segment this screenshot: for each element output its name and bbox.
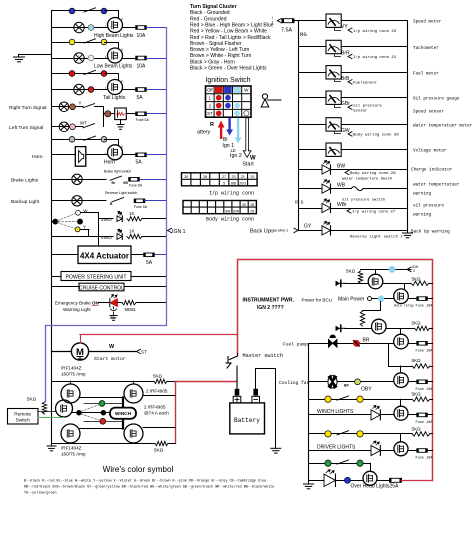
Low Beam Lights MOSFET bbox=[105, 48, 123, 64]
ignition ST W contact bbox=[244, 111, 249, 116]
red wire to power box bbox=[80, 334, 238, 336]
fuse 7.5A bbox=[282, 19, 294, 23]
M3 to M4 drop bbox=[400, 329, 402, 335]
M3 out wire bbox=[386, 328, 414, 330]
PSU right wire bbox=[131, 276, 167, 278]
C bottom stub bbox=[70, 442, 72, 445]
Y join wire bbox=[52, 230, 89, 237]
emergency wire mid bbox=[118, 302, 123, 304]
svg-text:Ign 2: Ign 2 bbox=[230, 153, 242, 159]
winch lights switch bbox=[337, 396, 349, 400]
fuse 5A actuator bbox=[144, 253, 155, 257]
left turn wire bbox=[52, 126, 84, 128]
driver lights switch wire bbox=[309, 433, 413, 435]
svg-text:28: 28 bbox=[250, 209, 254, 213]
fuse 5A turn bbox=[136, 112, 147, 116]
turn join wire bbox=[95, 107, 104, 127]
svg-text:2 IRF4905: 2 IRF4905 bbox=[146, 389, 168, 394]
green dot wire bbox=[84, 403, 123, 405]
meter 1 tab bbox=[335, 28, 341, 31]
svg-text:INSTRUMMENT PWR.: INSTRUMMENT PWR. bbox=[243, 298, 295, 304]
resistor 580 bbox=[122, 301, 136, 305]
M7 top stub bbox=[400, 434, 402, 442]
svg-text:I/p wiring conn 23: I/p wiring conn 23 bbox=[353, 29, 397, 34]
svg-text:Right Turn Signal: Right Turn Signal bbox=[9, 105, 47, 111]
ST arrowhead bbox=[137, 349, 141, 353]
IGN2 dot (light blue) bbox=[389, 266, 396, 273]
start motor left wire bbox=[52, 351, 72, 353]
E bottom stub bbox=[133, 442, 135, 445]
ignition dot r2c1 bbox=[216, 103, 222, 109]
CC left wire bbox=[52, 286, 80, 288]
battery ground bbox=[271, 448, 281, 453]
horn drain wire bbox=[105, 140, 119, 145]
Body wiring conn table bbox=[183, 201, 256, 214]
Low Beam Lights switch wire bbox=[52, 42, 105, 44]
svg-text:Main Power: Main Power bbox=[338, 297, 365, 303]
chassis ground stem bbox=[18, 55, 20, 58]
MOSFET IRF1404Z C bbox=[61, 424, 80, 443]
M8 out wire bbox=[377, 480, 389, 482]
overhead sw dot L bbox=[325, 460, 331, 466]
meter 2 (Tachometer) bbox=[326, 40, 341, 53]
emergency ground bbox=[110, 316, 117, 321]
to rail 1 bbox=[429, 283, 433, 285]
right turn wire bbox=[52, 106, 84, 108]
svg-text:30: 30 bbox=[242, 203, 246, 207]
horn wire to fuse bbox=[123, 154, 136, 156]
Y dot stub bbox=[80, 229, 89, 231]
meter 6 right wire bbox=[341, 149, 407, 151]
svg-text:Fuse 10A: Fuse 10A bbox=[416, 457, 434, 461]
brake wire bbox=[52, 179, 107, 181]
svg-text:25A: 25A bbox=[390, 483, 400, 489]
svg-text:5KΩ: 5KΩ bbox=[412, 426, 422, 431]
svg-text:5KΩ: 5KΩ bbox=[154, 448, 164, 453]
M1 out wire bbox=[383, 283, 411, 285]
horn switch wire bbox=[52, 139, 105, 141]
svg-text:5A: 5A bbox=[137, 95, 144, 101]
oilpress wire L bbox=[299, 208, 323, 210]
svg-text:Body wiring conn 28: Body wiring conn 28 bbox=[350, 171, 396, 176]
svg-text:Speed meter: Speed meter bbox=[413, 20, 442, 25]
High Beam Lights drain wire bbox=[105, 11, 119, 18]
svg-text:5KΩ: 5KΩ bbox=[412, 276, 422, 281]
M6 fuse to rail bbox=[427, 414, 432, 416]
meter 3 left wire bbox=[299, 72, 327, 74]
red dot wire bbox=[84, 421, 123, 423]
resistor 5K top bbox=[154, 379, 167, 383]
ignition dot r1c2 bbox=[225, 95, 231, 101]
meter 4 tab bbox=[335, 105, 341, 108]
Low Beam Lights switch dot L bbox=[69, 39, 75, 45]
winch switch dashed linkages bbox=[81, 405, 100, 421]
svg-text:Left Turn Signal: Left Turn Signal bbox=[9, 125, 43, 131]
battery - post bbox=[253, 389, 258, 396]
Tail Lights wire to fuse bbox=[123, 89, 136, 91]
svg-text:4WD: 4WD bbox=[101, 235, 112, 241]
wire to flasher bbox=[103, 113, 114, 115]
svg-text:BrB: BrB bbox=[341, 76, 350, 82]
driver lights switch bbox=[337, 431, 349, 435]
MOSFET M3 bbox=[372, 319, 387, 334]
meter rail ground stem bbox=[407, 230, 409, 233]
svg-text:I/p wiring conn 27: I/p wiring conn 27 bbox=[352, 209, 396, 214]
resistor 1K 2WD bbox=[127, 217, 142, 221]
svg-text:Body wiring conn 30: Body wiring conn 30 bbox=[353, 133, 399, 138]
svg-text:WINCH: WINCH bbox=[115, 411, 132, 417]
fuse 5A horn bbox=[136, 153, 147, 157]
svg-text:Body wiring conn: Body wiring conn bbox=[206, 216, 254, 222]
svg-text:M: M bbox=[76, 347, 84, 358]
selector W dot (white) bbox=[76, 210, 81, 215]
svg-text:RB--red/black BrB--brown/Bla: RB--red/black BrB--brown/Black GY--green… bbox=[24, 485, 274, 490]
emergency LED (red, left) bbox=[110, 295, 118, 307]
horn wire left bbox=[52, 154, 76, 156]
svg-text:160/75 Amp: 160/75 Amp bbox=[61, 372, 86, 377]
fuse 10A M4 bbox=[417, 342, 428, 346]
svg-text:Oil pressure gauge: Oil pressure gauge bbox=[413, 97, 460, 102]
actuator right wire bbox=[131, 254, 144, 256]
svg-text:DRIVER LIGHTS: DRIVER LIGHTS bbox=[317, 445, 356, 451]
winch dot (red) bbox=[100, 418, 106, 424]
watertemp wire R bbox=[363, 188, 408, 190]
selector feed wire bbox=[52, 221, 57, 223]
resistor 5K M5 bbox=[412, 364, 430, 368]
feed arrowhead bbox=[278, 19, 282, 23]
svg-text:W: W bbox=[244, 88, 249, 93]
svg-text:Tail Lights: Tail Lights bbox=[103, 95, 126, 101]
charge wire L bbox=[299, 169, 323, 171]
power bus ground bbox=[304, 484, 314, 489]
resistor 5K bottom bbox=[155, 441, 168, 445]
svg-text:GY: GY bbox=[304, 224, 312, 230]
svg-text:Black - Grounded: Black - Grounded bbox=[190, 10, 230, 16]
main left bus bbox=[51, 12, 53, 444]
W arrow (white outline, down) bbox=[243, 118, 251, 158]
MOSFET remote B bbox=[56, 400, 73, 417]
svg-text:IGN 1: IGN 1 bbox=[172, 229, 186, 235]
svg-text:10A: 10A bbox=[137, 63, 147, 69]
driver lights row wire bbox=[309, 450, 372, 452]
M4 fuse to rail bbox=[427, 343, 432, 345]
svg-text:(gas wire) 1: (gas wire) 1 bbox=[271, 229, 289, 233]
MOSFET M6 (winch lights) bbox=[394, 406, 408, 420]
Tail Lights lamp wire bbox=[52, 89, 108, 91]
Low Beam Lights blue wire to IGN1 bus bbox=[146, 58, 166, 60]
MOSFET IRF4905 D bbox=[124, 384, 143, 403]
driver diode to M7 bbox=[381, 450, 395, 452]
svg-text:Fuse 10A: Fuse 10A bbox=[416, 349, 434, 353]
svg-text:2: 2 bbox=[272, 21, 274, 25]
fuel pump row wire bbox=[309, 343, 394, 345]
fuse 25A overhead bbox=[390, 478, 402, 482]
emergency wire to bus bbox=[136, 302, 167, 304]
svg-text:21: 21 bbox=[241, 175, 245, 179]
water temp switch glyph bbox=[351, 187, 363, 191]
drain stub top bbox=[143, 395, 176, 397]
M7 fuse to rail bbox=[427, 450, 432, 452]
fuel pump red dot with slash bbox=[353, 340, 360, 347]
cooling dot (yellow-green) bbox=[355, 379, 361, 385]
junction dot A bbox=[77, 410, 82, 415]
svg-text:5KΩ: 5KΩ bbox=[412, 321, 422, 326]
svg-text:Reverse light switch 1: Reverse light switch 1 bbox=[350, 234, 403, 239]
horn switch bbox=[84, 136, 96, 140]
svg-text:Voltage meter: Voltage meter bbox=[413, 149, 447, 154]
overhead sw dot R bbox=[357, 460, 363, 466]
battery R arrow (red, up) bbox=[218, 121, 225, 140]
Tail Lights lamp bbox=[74, 84, 84, 94]
junction dot B bbox=[101, 410, 106, 415]
M1 top stub bbox=[375, 269, 377, 274]
selector to actuator wire bbox=[81, 213, 99, 247]
wire flasher to fuse bbox=[126, 113, 135, 115]
svg-text:Brake Lights: Brake Lights bbox=[11, 177, 39, 183]
remote green wire bbox=[38, 417, 64, 419]
svg-text:BR: BR bbox=[363, 337, 370, 343]
svg-text:10A: 10A bbox=[137, 33, 147, 39]
4X4 Actuator box bbox=[78, 246, 131, 264]
backup warn wire L bbox=[298, 230, 322, 232]
svg-text:CRUISE CONTROL: CRUISE CONTROL bbox=[79, 285, 124, 291]
overhead red wire to rail bbox=[402, 480, 433, 482]
winch lights diode bbox=[371, 405, 380, 420]
svg-text:5KΩ: 5KΩ bbox=[412, 358, 422, 363]
svg-text:Speed sensor: Speed sensor bbox=[413, 110, 444, 115]
svg-text:28: 28 bbox=[250, 203, 254, 207]
svg-text:2 IRF4905: 2 IRF4905 bbox=[144, 405, 166, 410]
Low Beam Lights wire to fuse bbox=[123, 58, 136, 60]
2WD LED bbox=[117, 211, 122, 221]
svg-text:ST: ST bbox=[141, 350, 147, 355]
svg-text:water tempertatuer: water tempertatuer bbox=[413, 183, 460, 188]
svg-text:R G: R G bbox=[295, 200, 304, 206]
svg-text:I/p wiring conn 21: I/p wiring conn 21 bbox=[353, 55, 397, 60]
svg-text:Brown > White - Right Turn: Brown > White - Right Turn bbox=[190, 53, 251, 59]
meter 4 right wire bbox=[341, 97, 407, 99]
Tail Lights drain wire bbox=[105, 74, 119, 80]
svg-text:WB: WB bbox=[337, 183, 346, 189]
left turn lamp bbox=[59, 122, 69, 132]
power bus bbox=[308, 344, 310, 481]
svg-text:BP: BP bbox=[344, 384, 349, 388]
svg-text:Auto relay: Auto relay bbox=[394, 304, 414, 308]
M5 top stub bbox=[400, 366, 402, 373]
Low Beam Lights drain wire bbox=[105, 43, 119, 49]
winch dot (green) bbox=[99, 401, 105, 407]
fuse 10A M2 bbox=[417, 297, 428, 301]
fuse 10A Low Beam Lights bbox=[136, 56, 147, 60]
svg-text:580Ω: 580Ω bbox=[125, 307, 137, 312]
bottom rail to red bbox=[168, 443, 176, 445]
svg-text:Fuse 5A: Fuse 5A bbox=[136, 118, 150, 122]
fuse 5A Tail Lights bbox=[136, 88, 147, 92]
svg-text:Reverse Light switch: Reverse Light switch bbox=[105, 191, 137, 195]
svg-text:Fuse 10A: Fuse 10A bbox=[416, 421, 434, 425]
meter 2 tab bbox=[335, 55, 341, 57]
to rail 2 bbox=[430, 328, 433, 330]
fuse 10A M6 bbox=[417, 413, 428, 417]
fuse 10A M5 bbox=[417, 380, 428, 384]
to rail 3 bbox=[430, 366, 433, 368]
M4 out wire bbox=[408, 343, 416, 345]
horn switch dot R (gray) bbox=[101, 136, 107, 142]
meter 6 (Voltage meter) bbox=[326, 143, 341, 156]
svg-text:@74 A each: @74 A each bbox=[144, 411, 169, 416]
top rail to red bbox=[167, 381, 176, 383]
svg-text:4X4 Actuator: 4X4 Actuator bbox=[80, 251, 129, 260]
svg-text:Backup Light: Backup Light bbox=[11, 199, 40, 205]
red power rail box bbox=[238, 260, 433, 481]
fuse 10A High Beam Lights bbox=[136, 26, 147, 30]
winch sw dot R bbox=[357, 396, 363, 402]
svg-text:Y: Y bbox=[83, 225, 86, 230]
charge wire R bbox=[331, 169, 408, 171]
fuse backup bbox=[134, 199, 145, 203]
PSU left wire bbox=[52, 276, 62, 278]
horn wire right bbox=[86, 154, 108, 156]
fuse brake bbox=[129, 178, 140, 182]
right turn lamp bbox=[59, 102, 69, 112]
ignition dot r2c2 bbox=[225, 103, 231, 109]
M7 out wire bbox=[408, 450, 417, 452]
wire fuse to meter bus bbox=[294, 20, 299, 22]
svg-text:oil pressure: oil pressure bbox=[413, 204, 444, 209]
meter 1 right wire bbox=[341, 20, 407, 22]
brake blue wire bbox=[139, 179, 166, 181]
High Beam Lights switch dot R bbox=[101, 8, 107, 14]
svg-text:GB: GB bbox=[123, 181, 128, 185]
watertemp wire L bbox=[299, 188, 323, 190]
svg-text:sensor: sensor bbox=[353, 108, 368, 113]
svg-text:Horn: Horn bbox=[32, 154, 43, 160]
oilpress LED bbox=[322, 199, 331, 213]
High Beam Lights switch wire bbox=[52, 10, 105, 12]
left turn switch bbox=[83, 124, 95, 128]
svg-text:5KΩ: 5KΩ bbox=[153, 373, 163, 378]
svg-text:RG: RG bbox=[300, 31, 307, 38]
to rail 5 bbox=[430, 433, 433, 435]
svg-text:BrR: BrR bbox=[341, 51, 350, 57]
to rail 4 bbox=[430, 399, 433, 401]
driver lights diode bbox=[371, 441, 380, 456]
svg-text:Red > Yellow - Low Beam > Whit: Red > Yellow - Low Beam > White bbox=[190, 29, 267, 35]
Tail Lights indicator dot bbox=[88, 87, 94, 93]
bias drop 3 bbox=[389, 344, 413, 367]
ignition dot r3c1 bbox=[216, 111, 222, 117]
M6 out wire bbox=[408, 414, 417, 416]
resistor 5K M2 bbox=[411, 281, 429, 285]
svg-text:WBr: WBr bbox=[337, 202, 347, 208]
power bus ground stem bbox=[308, 480, 310, 484]
junction dot (brown) bbox=[105, 111, 111, 117]
svg-text:Turn Signal Cluster: Turn Signal Cluster bbox=[190, 4, 237, 10]
svg-text:R: R bbox=[210, 122, 214, 128]
svg-text:Tachometer: Tachometer bbox=[413, 46, 439, 51]
svg-text:Power for BCU: Power for BCU bbox=[302, 298, 333, 303]
charge LED bbox=[322, 160, 331, 174]
resistor 5K M4 bbox=[415, 326, 430, 330]
winch motor link bars bbox=[122, 398, 124, 429]
driver sw dot R bbox=[357, 431, 363, 437]
resistor 5K M3 bbox=[360, 311, 364, 326]
CRUISE CONTROL box bbox=[79, 283, 124, 291]
winch diode to M6 bbox=[381, 414, 395, 416]
oilpress wire R bbox=[331, 208, 408, 210]
emergency transistor + ground bbox=[111, 307, 117, 315]
Ign2 arrow (light blue, down) bbox=[235, 118, 242, 144]
meter 1 left wire bbox=[299, 20, 327, 22]
High Beam Lights indicator dot bbox=[88, 25, 94, 31]
svg-text:Start motor: Start motor bbox=[94, 356, 126, 362]
fuel pump valve icon bbox=[328, 335, 337, 347]
svg-text:Off: Off bbox=[207, 88, 213, 93]
svg-text:20/1: 20/1 bbox=[239, 182, 246, 186]
M1 gate wire bbox=[345, 283, 368, 285]
svg-text:5A: 5A bbox=[136, 159, 143, 165]
driver sw dot L bbox=[325, 431, 331, 437]
svg-text:Black > Green - Over Head Ligh: Black > Green - Over Head Lights bbox=[190, 66, 267, 72]
A top stub bbox=[70, 381, 72, 384]
svg-text:GW: GW bbox=[341, 128, 350, 134]
overhead switch bbox=[337, 460, 349, 464]
svg-text:Horn: Horn bbox=[104, 159, 115, 165]
svg-text:Cooling fan: Cooling fan bbox=[279, 380, 310, 386]
svg-text:Master switch: Master switch bbox=[243, 353, 283, 359]
winch bottom link bbox=[80, 428, 123, 430]
4WD wire to bus bbox=[142, 236, 167, 238]
meter rail ground bbox=[403, 233, 413, 238]
svg-text:Y: Y bbox=[79, 101, 82, 106]
svg-text:30R: 30R bbox=[233, 209, 240, 213]
winch bottom rail bbox=[52, 443, 156, 445]
bias drop 2 bbox=[363, 302, 381, 311]
MOSFET M7 (driver lights) bbox=[394, 442, 408, 456]
svg-text:Fuse 5A: Fuse 5A bbox=[134, 205, 148, 209]
actuator blue wire bbox=[154, 254, 166, 256]
horn switch dot L (gray) bbox=[69, 136, 75, 142]
svg-text:5KΩ: 5KΩ bbox=[27, 397, 37, 402]
svg-text:POWER STEERING UNIT: POWER STEERING UNIT bbox=[65, 274, 127, 280]
horn blue wire bbox=[146, 154, 166, 156]
winch mid wire bbox=[73, 412, 111, 414]
meter 5 right wire bbox=[341, 124, 407, 126]
svg-text:IGN 2 ????: IGN 2 ???? bbox=[257, 305, 284, 311]
backup blue wire bbox=[145, 200, 167, 202]
svg-text:5: 5 bbox=[223, 182, 225, 186]
M2 fuse to rail bbox=[427, 298, 432, 300]
svg-text:Back Up: Back Up bbox=[250, 228, 271, 234]
MOSFET M1 bbox=[368, 274, 383, 289]
ignition dot r3c3 bbox=[234, 111, 240, 117]
selector Y dot (yellow) bbox=[75, 227, 80, 232]
meter 4 (Oil pressure gauge) bbox=[326, 91, 341, 104]
svg-text:I/p wiring conn: I/p wiring conn bbox=[209, 191, 254, 197]
meter 4 sub arrow bbox=[348, 105, 352, 109]
High Beam Lights lamp wire bbox=[52, 27, 108, 29]
svg-text:Back Up warning: Back Up warning bbox=[411, 230, 450, 235]
svg-text:YG--yellow/green: YG--yellow/green bbox=[24, 491, 57, 496]
start motor M bbox=[71, 343, 88, 360]
Tail Lights blue wire to IGN1 bus bbox=[146, 89, 166, 91]
battery negative wire bbox=[256, 369, 276, 449]
Tail Lights switch dot L bbox=[69, 71, 75, 77]
D top stub bbox=[133, 381, 135, 384]
resistor 5K M1 bbox=[358, 271, 362, 283]
svg-text:warning: warning bbox=[413, 192, 431, 197]
svg-text:8/8: 8/8 bbox=[225, 209, 230, 213]
